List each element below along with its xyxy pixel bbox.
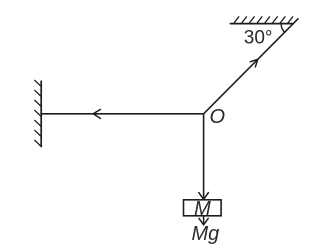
left wall	[40, 81, 42, 146]
vertical rope from node O to mass	[203, 114, 205, 199]
tension arrow on inclined rope (points up-right)	[250, 59, 258, 67]
horizontal rope from wall to node O	[41, 113, 203, 115]
svg-text:30°: 30°	[244, 28, 273, 49]
svg-text:O: O	[210, 106, 226, 128]
ceiling hatching	[234, 17, 293, 24]
arrow into mass (points down)	[199, 193, 209, 200]
left wall hatching	[35, 80, 42, 146]
svg-text:M: M	[194, 198, 211, 220]
ceiling	[230, 23, 293, 25]
tension arrow on horizontal rope (points left)	[93, 109, 100, 118]
mass M box	[184, 200, 222, 216]
angle arc at ceiling junction	[281, 24, 285, 33]
inclined rope from node O to ceiling	[204, 19, 298, 114]
weight arrow below mass (points down)	[199, 216, 208, 225]
svg-text:Mg: Mg	[192, 223, 220, 245]
